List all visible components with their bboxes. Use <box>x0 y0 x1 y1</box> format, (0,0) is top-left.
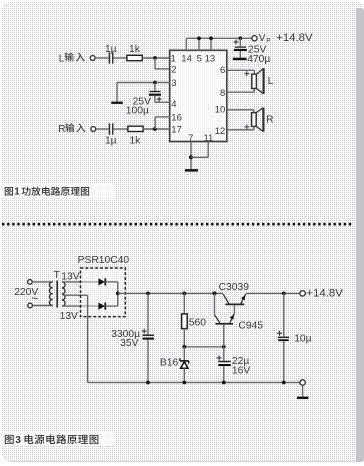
bottom rail <box>88 381 300 385</box>
svg-text:2: 2 <box>171 64 176 75</box>
wire secondary top <box>62 281 98 283</box>
transformer core <box>56 281 58 308</box>
svg-text:14: 14 <box>181 54 192 65</box>
terminal ground out <box>300 380 305 397</box>
speaker R <box>252 108 274 132</box>
svg-text:1k: 1k <box>129 135 141 146</box>
node C4 tap <box>238 36 242 40</box>
svg-text:8: 8 <box>220 88 225 99</box>
svg-text:16: 16 <box>171 112 182 123</box>
diode D2 <box>98 303 117 310</box>
capacitor C3 1u <box>105 123 117 146</box>
label T <box>54 269 61 281</box>
svg-text:V: V <box>259 33 266 44</box>
svg-text:T: T <box>54 269 61 281</box>
svg-text:P: P <box>266 37 270 44</box>
ground bar under C4 <box>233 58 247 61</box>
svg-text:13: 13 <box>205 54 216 65</box>
wire pin6 to L speaker <box>227 70 255 74</box>
capacitor C4 470u 25V <box>234 38 271 65</box>
transistor Q1 C3039 <box>219 282 250 313</box>
svg-text:560: 560 <box>189 317 206 328</box>
svg-text:1: 1 <box>171 54 176 65</box>
ground bar bottom right <box>297 397 309 400</box>
svg-text:6: 6 <box>220 65 225 76</box>
pin labels top row <box>171 54 216 65</box>
caption figure 3 <box>0 432 116 447</box>
wire mains bottom <box>33 305 53 307</box>
svg-text:100µ: 100µ <box>126 105 149 116</box>
terminal L input <box>90 56 95 61</box>
wire pin3 with node <box>117 81 170 85</box>
wire to ground from pin3 <box>116 83 118 102</box>
dashed separator <box>2 223 353 226</box>
svg-text:12: 12 <box>215 126 226 137</box>
pin labels left column <box>171 64 182 135</box>
wire L-in to C1 <box>95 57 108 59</box>
IC U1 body <box>170 50 227 141</box>
resistor R1 1k <box>127 44 142 61</box>
label L input <box>59 52 85 64</box>
svg-text:3: 3 <box>15 435 21 446</box>
svg-text:+14.8V: +14.8V <box>276 32 313 44</box>
svg-text:16V: 16V <box>232 365 250 376</box>
svg-text:10µ: 10µ <box>294 334 311 345</box>
wire node to pin2 <box>155 58 170 69</box>
label 13V bottom <box>60 311 78 322</box>
ground bar under IC <box>185 169 198 172</box>
svg-text:R: R <box>58 124 65 135</box>
wire mains top <box>32 281 52 283</box>
capacitor C1 1u <box>105 44 117 64</box>
svg-text:1: 1 <box>14 187 20 198</box>
svg-text:3: 3 <box>171 78 176 89</box>
wire C2 to pin4 <box>155 101 170 103</box>
speaker L <box>252 68 274 94</box>
rail left segment <box>146 291 223 295</box>
terminal mains top <box>28 280 33 285</box>
transformer T primary <box>49 282 52 306</box>
wire center tap <box>63 295 88 382</box>
svg-text:1µ: 1µ <box>105 44 117 55</box>
wire pin10 to R speaker <box>227 110 254 113</box>
pin 13 riser <box>209 36 213 50</box>
pin labels bottom row <box>188 133 213 144</box>
pin 14 riser <box>185 38 187 50</box>
terminal +14.8V out <box>300 287 343 299</box>
svg-text:470µ: 470µ <box>247 54 270 65</box>
ground bar pin3 <box>111 102 123 104</box>
wire R1 to pin1 with node <box>142 56 169 60</box>
bridge rectifier PSR10C40 box <box>78 255 130 317</box>
label 220V <box>14 287 38 305</box>
svg-text:+14.8V: +14.8V <box>306 287 343 299</box>
terminal Vp <box>252 32 313 44</box>
wire R-in to C3 <box>96 128 109 130</box>
terminal mains bottom <box>28 303 33 308</box>
wire pin11 down <box>191 142 208 158</box>
wire pin12 to R speaker <box>227 126 254 129</box>
caption figure 1 <box>0 184 116 199</box>
wire C1 to R1 <box>113 57 127 59</box>
diode D1 <box>98 278 117 285</box>
resistor R3 560 <box>182 293 207 346</box>
transistor Q2 C945 <box>215 293 264 346</box>
wire R2 to pin17 with node <box>143 127 170 131</box>
wire C3 to R2 <box>113 128 128 130</box>
resistor R2 1k <box>128 126 143 146</box>
svg-text:R: R <box>266 114 273 125</box>
wire secondary bottom <box>62 305 98 307</box>
capacitor C2 100u 25V <box>126 83 162 117</box>
svg-text:35V: 35V <box>120 338 138 349</box>
svg-text:B16: B16 <box>160 358 179 369</box>
label R input <box>58 123 85 135</box>
terminal R input <box>91 127 96 132</box>
svg-text:L: L <box>59 53 65 64</box>
svg-text:C3039: C3039 <box>219 282 250 293</box>
svg-text:L: L <box>268 76 274 87</box>
capacitor C7 10u <box>277 293 312 382</box>
svg-text:PSR10C40: PSR10C40 <box>78 255 130 266</box>
plus mark R speaker <box>244 124 249 129</box>
pin labels right column <box>215 65 226 137</box>
wire node to pin16 <box>155 117 170 129</box>
svg-text:1µ: 1µ <box>105 135 117 146</box>
rail right segment <box>246 292 300 296</box>
zener B16 <box>160 347 189 383</box>
wire 560 to base node <box>182 345 225 349</box>
transformer T secondary <box>62 282 65 306</box>
svg-text:13V: 13V <box>61 271 79 282</box>
plus mark L speaker <box>244 71 249 76</box>
svg-text:1k: 1k <box>129 44 141 55</box>
bridge output join <box>116 282 120 306</box>
svg-text:10: 10 <box>215 105 226 116</box>
capacitor C5 3300u 35V <box>111 293 154 382</box>
Vp supply rail <box>186 37 252 39</box>
svg-text:5: 5 <box>197 54 202 65</box>
svg-text:13V: 13V <box>60 311 78 322</box>
wire pin8 to L speaker <box>227 89 254 93</box>
pin 5 riser <box>197 36 201 50</box>
svg-text:C945: C945 <box>238 320 263 331</box>
label 13V top <box>61 271 79 282</box>
capacitor C6 22u 16V <box>217 347 251 383</box>
wire bridge out to rail <box>118 292 148 294</box>
svg-text:17: 17 <box>171 124 182 135</box>
svg-text:4: 4 <box>171 99 176 110</box>
wire pin7 down with node <box>189 142 193 170</box>
